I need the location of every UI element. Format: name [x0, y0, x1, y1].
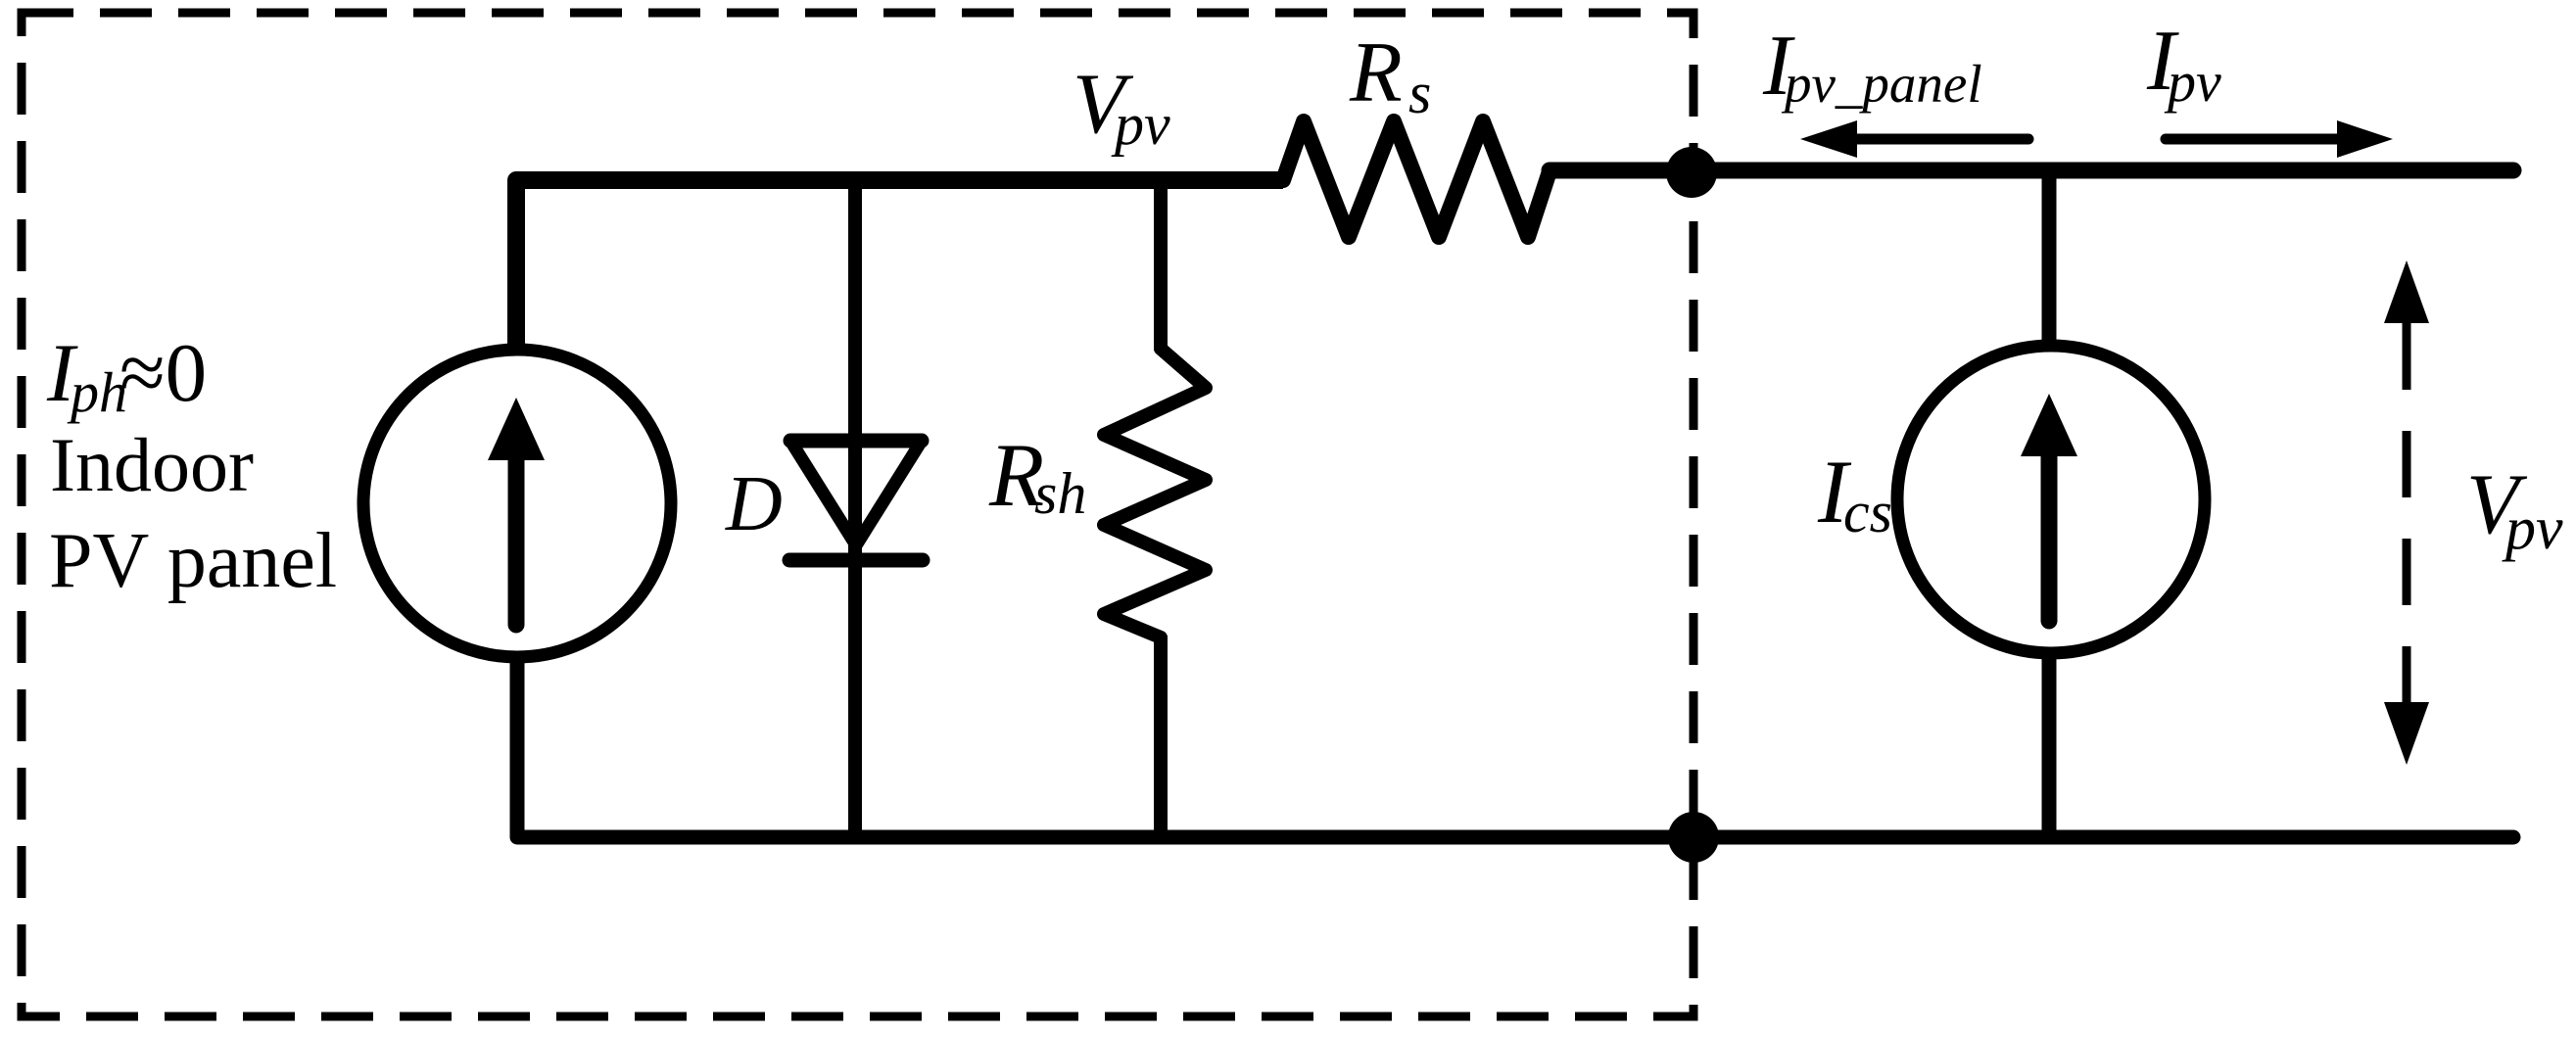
svg-text:pv: pv	[1111, 92, 1170, 157]
diode D: anode bar	[790, 434, 922, 448]
wire: Rsh bottom lead	[1154, 636, 1168, 837]
svg-text:R: R	[1349, 25, 1403, 120]
resistor Rsh (vertical zigzag)	[1104, 349, 1206, 637]
node: top junction dot	[1666, 147, 1717, 198]
dashed boundary box: Indoor PV panel	[22, 13, 1693, 1016]
current source Iph: arrow head	[488, 398, 545, 460]
arrow: Ipv_panel current direction (left)	[1854, 134, 2028, 145]
svg-text:pv: pv	[2502, 495, 2563, 562]
svg-text:pv: pv	[2164, 50, 2221, 114]
current source Ics: bottom lead	[2042, 653, 2057, 837]
wire: top-left bus from current source top to Rs	[516, 180, 1283, 345]
current source Ics: top lead	[2042, 170, 2057, 346]
svg-text:pv_panel: pv_panel	[1781, 54, 1982, 114]
svg-text:≈0: ≈0	[119, 327, 207, 419]
svg-text:Indoor: Indoor	[50, 422, 254, 507]
wire: bottom bus from Iph to right end	[517, 658, 2513, 837]
current source Ics: arrow head	[2021, 394, 2077, 456]
svg-text:PV panel: PV panel	[49, 518, 337, 604]
wire: diode branch vertical	[848, 173, 862, 837]
svg-text:D: D	[725, 461, 783, 547]
wire: Rs to top-right end through node	[1550, 163, 2513, 179]
current source Iph: circle	[363, 350, 671, 657]
svg-text:ph: ph	[67, 360, 127, 424]
current source Ics: arrow shaft	[2041, 454, 2058, 621]
current source Ics: circle	[1897, 346, 2205, 653]
diode D: triangle	[790, 441, 922, 545]
arrow: Vpv measurement double arrow (dashed)	[2403, 323, 2411, 703]
svg-text:sh: sh	[1034, 461, 1086, 526]
diode D: cathode bar	[789, 553, 923, 568]
current source Iph: arrow shaft	[508, 458, 525, 625]
resistor Rs (horizontal zigzag)	[1283, 121, 1550, 237]
arrow: Ipv current direction (right)	[2166, 134, 2341, 145]
wire: Rsh top lead	[1154, 180, 1168, 351]
svg-text:s: s	[1408, 61, 1431, 125]
svg-text:cs: cs	[1843, 480, 1892, 544]
node: bottom junction dot	[1668, 812, 1719, 863]
